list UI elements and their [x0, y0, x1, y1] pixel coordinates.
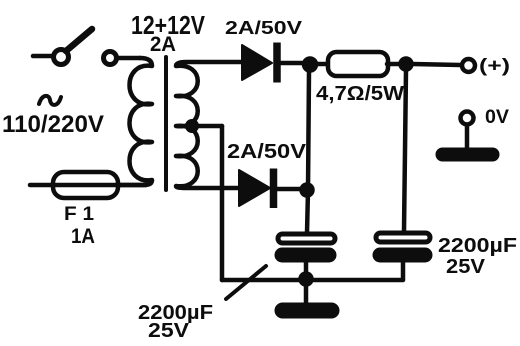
wire center tap to vertical [197, 124, 222, 129]
svg-text:25V: 25V [148, 320, 190, 342]
ground bar 0V [436, 148, 499, 161]
switch S1 pivot circle [54, 50, 69, 65]
capacitor C1 top plate [278, 234, 335, 243]
wire D1 cathode to node [280, 61, 302, 66]
svg-text:0V: 0V [485, 107, 509, 128]
AC tilde symbol [39, 96, 61, 105]
node transformer primary top terminal [104, 52, 117, 65]
wire 0V stub [465, 126, 470, 149]
wire vertical node B to C2 [404, 70, 406, 231]
diode D2 2A/50V [239, 170, 270, 206]
resistor R1 body [328, 52, 388, 76]
diode D1 cathode bar [273, 43, 281, 83]
wire vertical node A to C1 [307, 70, 309, 233]
node center tap dot [186, 120, 199, 133]
wire node A to resistor [313, 62, 327, 67]
wire D2 cathode to node C [277, 187, 300, 192]
wire ground stub [304, 282, 309, 303]
node 0V terminal [461, 112, 474, 125]
node junction dot C [300, 183, 314, 197]
svg-text:(+): (+) [479, 56, 510, 76]
svg-text:25V: 25V [446, 256, 486, 278]
diode D1 2A/50V [242, 45, 272, 80]
wire center tap vertical down [220, 126, 225, 280]
transformer T1 secondary winding [176, 62, 242, 188]
wire bottom rail [222, 278, 403, 283]
svg-text:1A: 1A [71, 225, 95, 248]
transformer T1 core [164, 57, 168, 190]
wire C1 bottom stub [304, 261, 309, 278]
diode D2 cathode bar [270, 169, 278, 209]
wire C2 bottom stub [401, 261, 406, 279]
node junction dot B [399, 57, 413, 71]
fuse F1 body [53, 172, 118, 198]
switch S1 lever [66, 29, 92, 51]
capacitor C2 bottom plate [373, 248, 432, 262]
svg-text:2200µF: 2200µF [438, 235, 517, 257]
transformer T1 primary winding [120, 58, 152, 185]
svg-text:2A/50V: 2A/50V [225, 17, 303, 38]
svg-text:F 1: F 1 [64, 204, 94, 225]
ground bar main [275, 303, 339, 318]
capacitor C1 bottom plate [275, 248, 336, 262]
wire resistor to node B [387, 62, 400, 67]
leader line to C1 [226, 266, 266, 299]
svg-text:2A/50V: 2A/50V [227, 140, 306, 163]
node output (+) terminal [462, 59, 475, 72]
capacitor C2 top plate [376, 233, 430, 242]
wire terminal to primary [117, 56, 140, 61]
svg-text:4,7Ω/5W: 4,7Ω/5W [316, 83, 404, 105]
node junction dot D [299, 272, 313, 286]
wire input stub top-left [33, 54, 51, 59]
wire node B to output [413, 64, 460, 65]
node junction dot A [303, 57, 318, 72]
svg-text:110/220V: 110/220V [2, 111, 104, 138]
svg-text:2A: 2A [150, 33, 176, 56]
wire fuse through lead [30, 183, 146, 188]
